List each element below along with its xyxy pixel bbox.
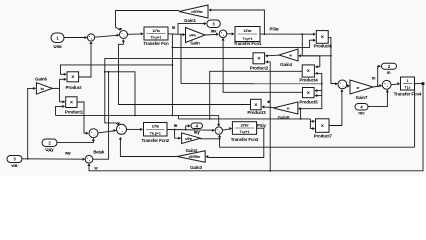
wire inport3 wв to Betak xyxy=(22,158,85,161)
svg-text:кФЛЯвг: кФЛЯвг xyxy=(189,155,202,159)
gain Gain6 (ks) xyxy=(35,76,52,94)
wire node Iя to outport3 xyxy=(178,22,206,34)
svg-text:×: × xyxy=(70,100,73,106)
wire SumC to SumD xyxy=(98,129,116,133)
svg-text:×: × xyxy=(307,69,310,75)
wire Sum3 to Transfer Fcn1 xyxy=(227,32,235,35)
svg-text:Gain7: Gain7 xyxy=(356,95,368,100)
wire Gain4 to Product2 in1 xyxy=(265,54,279,57)
wire link Gain5 line to lower line xyxy=(300,109,302,119)
svg-text:×: × xyxy=(321,35,324,41)
wire node m to outport2 xyxy=(378,65,381,87)
wire midline y115 xyxy=(56,115,219,117)
svg-text:Transfer Fcn3: Transfer Fcn3 xyxy=(231,137,259,142)
gain Gain3 (кФЛЯвг) xyxy=(177,151,205,171)
wire line L1 to Product in1 xyxy=(61,64,174,76)
svg-text:Product4: Product4 xyxy=(299,77,318,82)
sum Sum3 xyxy=(219,30,227,38)
svg-text:Тв.р+1: Тв.р+1 xyxy=(150,132,161,136)
label w xyxy=(64,151,98,171)
svg-text:wв: wв xyxy=(11,163,18,168)
wire Product to Sum1 bottom xyxy=(79,41,93,77)
svg-text:×: × xyxy=(257,56,260,62)
wire w stub to Product3 in1 xyxy=(267,100,270,103)
svg-text:Gain6: Gain6 xyxy=(35,76,47,81)
svg-text:Uду: Uду xyxy=(45,147,54,152)
product Product5 xyxy=(299,88,318,105)
wire branch y72 to midline xyxy=(105,72,135,116)
wire w feedback bottom xyxy=(87,82,424,171)
svg-text:mc: mc xyxy=(358,111,365,116)
sum SumA (torque sum) xyxy=(338,80,347,89)
svg-text:Gain1: Gain1 xyxy=(184,18,196,23)
product Product7 xyxy=(314,119,333,139)
svg-text:Product2: Product2 xyxy=(250,66,269,71)
svg-text:Transfer Fcn1: Transfer Fcn1 xyxy=(234,41,262,46)
wire tap to outport4 Iву xyxy=(186,124,191,129)
wire lower line y119 xyxy=(178,118,310,120)
svg-text:Product1: Product1 xyxy=(65,110,84,115)
svg-text:PSiу: PSiу xyxy=(257,123,266,128)
wire Product6 output to SumA xyxy=(328,37,338,85)
wire link y115 to y119 xyxy=(177,115,179,119)
wire Gain to Sum3 xyxy=(205,33,219,36)
product Product6 xyxy=(314,31,333,49)
svg-text:Gain3: Gain3 xyxy=(190,165,202,170)
sum SumE (before Transfer Fcn3) xyxy=(215,127,222,134)
svg-text:ks: ks xyxy=(40,87,44,91)
gain Gain1 (кФЛЯвг) xyxy=(179,5,208,23)
transfer function Transfer Fcn3 xyxy=(231,122,259,142)
wire Transfer Fcn4 output xyxy=(415,83,424,85)
wire Product4 output down to lower line xyxy=(209,71,302,120)
wire Gain2 output to SumE bottom xyxy=(200,138,219,140)
outport 3 (Iяк) xyxy=(207,20,221,34)
svg-text:Transfer Fcn4: Transfer Fcn4 xyxy=(394,92,422,97)
wire wв branch to Gain6 xyxy=(27,87,36,160)
svg-text:Gain: Gain xyxy=(190,41,200,46)
svg-text:w: w xyxy=(288,54,292,58)
svg-text:Product7: Product7 xyxy=(314,133,333,138)
wire Sum1 to Sum2 xyxy=(95,33,120,37)
svg-text:Тя.р+1: Тя.р+1 xyxy=(151,36,162,40)
gain Gain5 (w) xyxy=(273,102,298,120)
wire Product2 output to SumD top xyxy=(104,59,253,126)
wire Gain7 to SumB (node m) xyxy=(373,84,382,87)
svg-text:1/Ля: 1/Ля xyxy=(152,29,159,33)
svg-text:m: m xyxy=(387,70,391,75)
wire Iя torque line xyxy=(181,83,323,85)
wire Betak output right and up xyxy=(93,71,110,159)
svg-text:×: × xyxy=(254,102,257,108)
svg-text:Тj.s: Тj.s xyxy=(405,86,411,90)
transfer function Transfer Fcn2 xyxy=(142,123,170,144)
svg-text:1: 1 xyxy=(407,79,409,83)
svg-text:кФЛЯвг: кФЛЯвг xyxy=(191,10,203,14)
sum Betak xyxy=(85,150,105,163)
gain Gain2 (кФв) xyxy=(182,133,201,153)
inport 1 (Uяв) xyxy=(51,33,64,49)
outport 2 (m) xyxy=(382,63,397,75)
svg-text:w: w xyxy=(286,107,290,111)
wire SumE to Transfer Fcn3 xyxy=(223,127,233,130)
wire L1 drop to midline xyxy=(172,34,174,116)
svg-text:кФя: кФя xyxy=(189,34,196,38)
sum Sum2 xyxy=(120,31,128,39)
wire inport1 to Sum1 xyxy=(64,36,87,39)
svg-text:m: m xyxy=(372,75,376,80)
transfer function Transfer Fcn xyxy=(143,27,169,46)
svg-text:кФв: кФв xyxy=(185,137,191,141)
svg-text:1/Ляг: 1/Ляг xyxy=(240,123,249,127)
svg-text:Product3: Product3 xyxy=(247,110,266,115)
svg-text:Transfer Fcn: Transfer Fcn xyxy=(143,41,169,46)
wire Product3 output to Sum2 bottom xyxy=(119,39,251,104)
sum SumB (load sum) xyxy=(382,80,391,89)
wire Gain6 output bus xyxy=(52,78,66,104)
svg-text:Iв: Iв xyxy=(174,123,178,128)
label PSiв xyxy=(270,27,279,32)
gain Gain7 (кг) xyxy=(350,80,373,100)
wire SumA to Gain7 xyxy=(347,84,350,87)
wire Transfer Fcn2 output to SumE xyxy=(167,129,215,132)
wire Gain3 output to SumD bottom xyxy=(119,137,177,157)
svg-text:Product5: Product5 xyxy=(299,99,318,104)
label m xyxy=(372,75,376,80)
svg-text:×: × xyxy=(71,75,74,81)
wire inport2 Uду to SumC bottom xyxy=(57,138,95,142)
label Iв xyxy=(174,123,178,128)
svg-text:1/Лв: 1/Лв xyxy=(152,125,160,129)
wire PSiв branch to Product4 in1 xyxy=(302,34,320,68)
wire w riser to Product2 in2 xyxy=(265,60,271,171)
wire feeds to Product7 xyxy=(310,119,315,130)
svg-text:1/Ляг: 1/Ляг xyxy=(243,29,252,33)
wire y147 riser to TF4 output xyxy=(414,83,416,147)
sum Sum1 xyxy=(87,34,94,41)
svg-text:Product: Product xyxy=(66,85,83,90)
outport 4 (Iву) xyxy=(191,123,203,135)
svg-text:Gain4: Gain4 xyxy=(280,62,292,67)
wire Product6 branch to Gain4 xyxy=(298,54,331,57)
wire tap to Gain2 xyxy=(175,130,181,140)
wire inport mc to SumB bottom xyxy=(368,90,389,107)
wire SumD to Transfer Fcn2 xyxy=(127,128,143,131)
wire Sum2 to Transfer Fcn xyxy=(128,32,144,35)
svg-text:Transfer Fcn2: Transfer Fcn2 xyxy=(142,138,170,143)
gain Gain (кФя) xyxy=(186,28,206,46)
svg-text:×: × xyxy=(307,90,310,96)
wire Product5 output to Sum3 bottom xyxy=(221,38,302,92)
product Product xyxy=(66,72,83,90)
sum SumC xyxy=(89,129,98,138)
wire w line y147 to SumE bottom riser xyxy=(218,135,415,148)
wire SumB to Transfer Fcn4 xyxy=(391,82,400,85)
product Product1 xyxy=(65,97,84,115)
wire Transfer Fcn3 output to Gain3 xyxy=(206,128,264,158)
wire Transfer Fcn1 output to Gain1 feedback xyxy=(209,8,266,35)
product Product2 xyxy=(250,53,269,71)
label Iя xyxy=(172,25,176,30)
wire Gain5 to Product3 in2 xyxy=(262,105,274,108)
wire node Iя down to torque line xyxy=(180,34,182,84)
svg-text:Gain5: Gain5 xyxy=(278,115,290,120)
product Product3 xyxy=(247,99,266,115)
sum SumD xyxy=(117,124,127,134)
wire Product1 output to SumC xyxy=(77,102,88,135)
transfer function Transfer Fcn1 xyxy=(234,27,262,46)
wire midline to Product1 in2 xyxy=(56,105,66,116)
svg-text:PSiв: PSiв xyxy=(270,27,279,32)
product Product4 xyxy=(299,65,318,82)
wire Iя tap line y47 to Product6 in2 xyxy=(172,39,316,49)
gain Gain4 (w) xyxy=(279,49,298,67)
wire Transfer Fcn to Gain xyxy=(168,33,185,36)
svg-text:×: × xyxy=(321,123,324,129)
wire Gain1 to Sum2 top xyxy=(116,11,180,31)
wire Transfer Fcn1 to Product6 (PSiв) xyxy=(260,33,316,36)
wire midline to SumE top xyxy=(217,115,220,126)
svg-text:Тг.р+1: Тг.р+1 xyxy=(239,130,249,134)
svg-text:wв: wв xyxy=(64,151,71,156)
inport 4 (mc) xyxy=(355,104,368,116)
inport 3 (wв) xyxy=(7,156,22,169)
label PSiу xyxy=(257,123,266,128)
transfer function Transfer Fcn4 xyxy=(394,77,422,97)
inport 2 (Uду) xyxy=(42,139,57,152)
wire Product7 output to SumA bottom xyxy=(329,89,344,125)
svg-text:Product6: Product6 xyxy=(314,43,333,48)
svg-text:Uяв: Uяв xyxy=(53,44,62,49)
wire Iя branch to Product4 in2, Product5 and Gain5 xyxy=(298,72,322,111)
svg-text:Betak: Betak xyxy=(93,150,105,155)
